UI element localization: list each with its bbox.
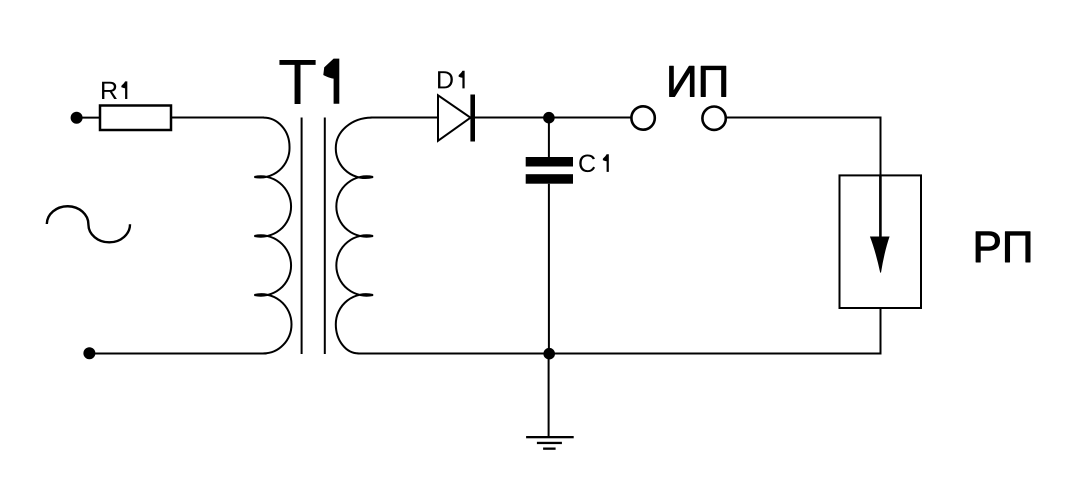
- switch contact circle (left): [631, 106, 654, 129]
- wire: [880, 118, 882, 177]
- load box РП: [840, 175, 922, 308]
- ground bar 2: [537, 442, 562, 444]
- junction dot: [543, 112, 555, 124]
- AC source terminal dot (bottom): [83, 347, 95, 359]
- capacitor C1 bottom plate: [526, 174, 573, 184]
- ground bar 1: [526, 436, 574, 438]
- wire: [475, 117, 631, 119]
- transformer T1 core line 1: [301, 118, 303, 355]
- label R1: [102, 82, 117, 99]
- label D1: [438, 71, 453, 88]
- wire: [77, 117, 100, 119]
- junction dot: [543, 348, 555, 360]
- label T1: [279, 60, 315, 104]
- label РП: [976, 232, 999, 262]
- wire: [548, 118, 550, 158]
- wire (inside load box): [879, 175, 882, 237]
- wire: [726, 117, 882, 119]
- transformer T1 secondary winding: [336, 118, 373, 354]
- AC source terminal dot (top): [71, 112, 83, 124]
- switch contact circle (right): [702, 107, 725, 130]
- wire: [880, 308, 882, 355]
- ground bar 3: [543, 448, 556, 450]
- load arrow: [870, 237, 890, 273]
- diode D1: [438, 95, 471, 141]
- transformer T1 primary winding: [254, 118, 291, 354]
- transformer T1 core line 2: [324, 118, 326, 355]
- label ИП: [670, 66, 694, 96]
- AC source sine symbol: [47, 206, 130, 242]
- wire: [548, 184, 550, 354]
- capacitor C1 top plate: [526, 157, 573, 167]
- wire: [548, 354, 550, 438]
- wire: [358, 353, 881, 355]
- diode D1 cathode bar: [470, 95, 475, 142]
- resistor R1: [100, 106, 171, 131]
- wire: [171, 117, 264, 119]
- label C1: [579, 154, 595, 172]
- wire: [89, 353, 266, 355]
- wire: [371, 117, 439, 119]
